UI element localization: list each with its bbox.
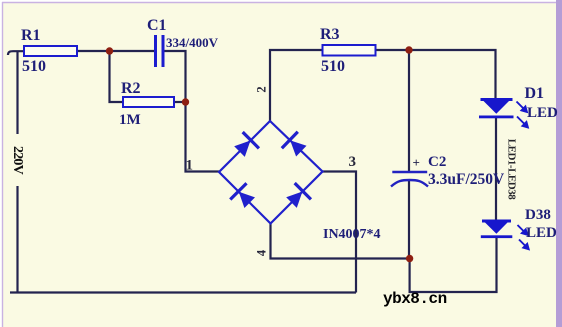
svg-text:220V: 220V — [10, 146, 25, 175]
LED D1 — [479, 98, 514, 118]
svg-text:510: 510 — [321, 58, 345, 75]
bridge rectifier outline — [219, 121, 323, 224]
resistor R3 — [323, 45, 376, 56]
wire: R1 right to C1 left — [77, 50, 154, 52]
wire: left vertical upper segment — [16, 51, 18, 134]
wire: R3 right to junction C and LED string top — [376, 50, 496, 98]
capacitor C2 — [391, 172, 428, 187]
wire: D1 cathode to D38 anode — [495, 118, 497, 220]
light arrows D38 — [518, 225, 529, 249]
wire: C2 bottom down to junction D — [408, 180, 410, 259]
svg-text:3.3uF/250V: 3.3uF/250V — [428, 171, 505, 188]
LED D38 — [481, 220, 513, 239]
svg-text:IN4007*4: IN4007*4 — [323, 227, 381, 242]
svg-text:LED: LED — [526, 225, 557, 241]
diode top-right (node3 to node2) — [282, 132, 309, 160]
svg-text:3: 3 — [349, 154, 357, 170]
wire: junction C down to C2 top — [408, 50, 410, 171]
wire: left vertical lower segment — [16, 186, 18, 292]
resistor R2 — [123, 97, 174, 107]
svg-text:C2: C2 — [428, 154, 446, 170]
svg-text:1: 1 — [186, 158, 194, 174]
svg-text:1M: 1M — [119, 112, 141, 128]
svg-text:R3: R3 — [320, 26, 340, 43]
diode top-left (node1 to node2) — [231, 132, 259, 160]
wire: bridge top to R3 left — [270, 50, 323, 122]
wire: bottom rail — [10, 291, 356, 293]
wire: bridge bottom to junction D — [271, 223, 410, 259]
svg-text:LED1-LED38: LED1-LED38 — [506, 139, 518, 200]
wire: R2 right to junction B — [174, 101, 186, 103]
resistor R1 — [24, 46, 77, 56]
diode bottom-left (node4 to node1) — [230, 183, 258, 211]
svg-text:510: 510 — [22, 58, 46, 75]
svg-text:C1: C1 — [147, 17, 167, 34]
svg-text:334/400V: 334/400V — [166, 35, 219, 50]
svg-text:R2: R2 — [121, 80, 141, 97]
light arrows D1 — [517, 102, 528, 128]
svg-text:4: 4 — [255, 249, 269, 256]
svg-text:D38: D38 — [525, 207, 551, 223]
svg-text:2: 2 — [255, 86, 269, 92]
wire: junction A down to R2 left — [110, 51, 124, 102]
wire: C1 right down to node 1 — [165, 51, 220, 172]
wire: junction D down and right to D38 bottom — [410, 238, 497, 292]
junction A — [106, 47, 113, 54]
junction D — [406, 255, 413, 262]
diode bottom-right (node4 to node3) — [283, 183, 311, 211]
junction B — [182, 98, 189, 105]
svg-text:LED: LED — [527, 105, 558, 121]
svg-text:D1: D1 — [525, 85, 545, 102]
svg-text:R1: R1 — [21, 27, 41, 44]
junction C — [405, 46, 412, 53]
wire: AC input left lead to R1 — [8, 51, 24, 55]
capacitor C1 — [156, 35, 164, 67]
wire: node 3 vertical down to bottom rail — [323, 172, 357, 293]
svg-text:+: + — [413, 155, 420, 170]
svg-text:ybx8.cn: ybx8.cn — [383, 290, 447, 308]
